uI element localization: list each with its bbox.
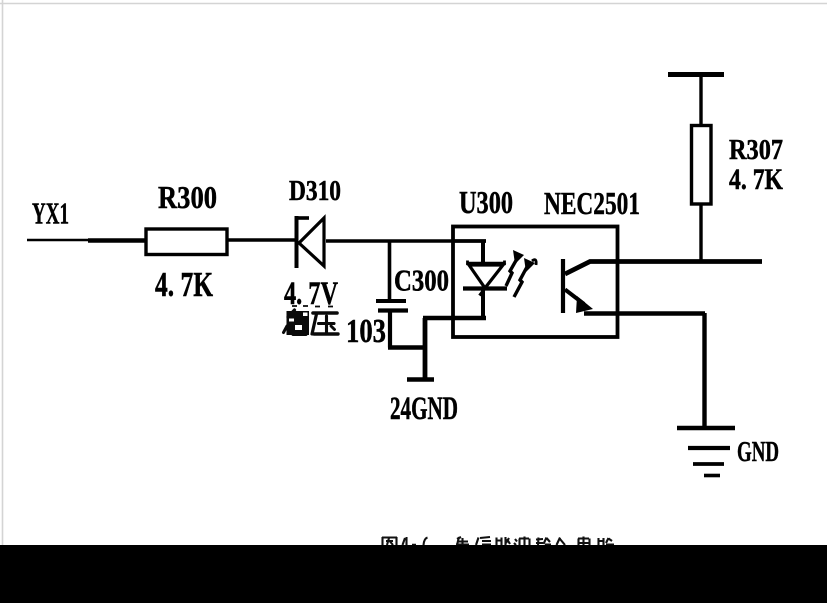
- svg-text:D310: D310: [289, 176, 341, 207]
- svg-text:GND: GND: [737, 437, 779, 468]
- svg-text:R307: R307: [729, 134, 783, 166]
- svg-text:103: 103: [346, 313, 386, 350]
- svg-text:YX1: YX1: [32, 196, 69, 231]
- svg-text:NEC2501: NEC2501: [544, 185, 640, 221]
- svg-text:C300: C300: [394, 263, 449, 298]
- svg-text:R300: R300: [158, 179, 217, 215]
- svg-text:24GND: 24GND: [390, 391, 458, 427]
- svg-text:4. 7K: 4. 7K: [729, 163, 784, 196]
- svg-text:U300: U300: [459, 184, 513, 220]
- svg-text:4. 7K: 4. 7K: [155, 265, 213, 304]
